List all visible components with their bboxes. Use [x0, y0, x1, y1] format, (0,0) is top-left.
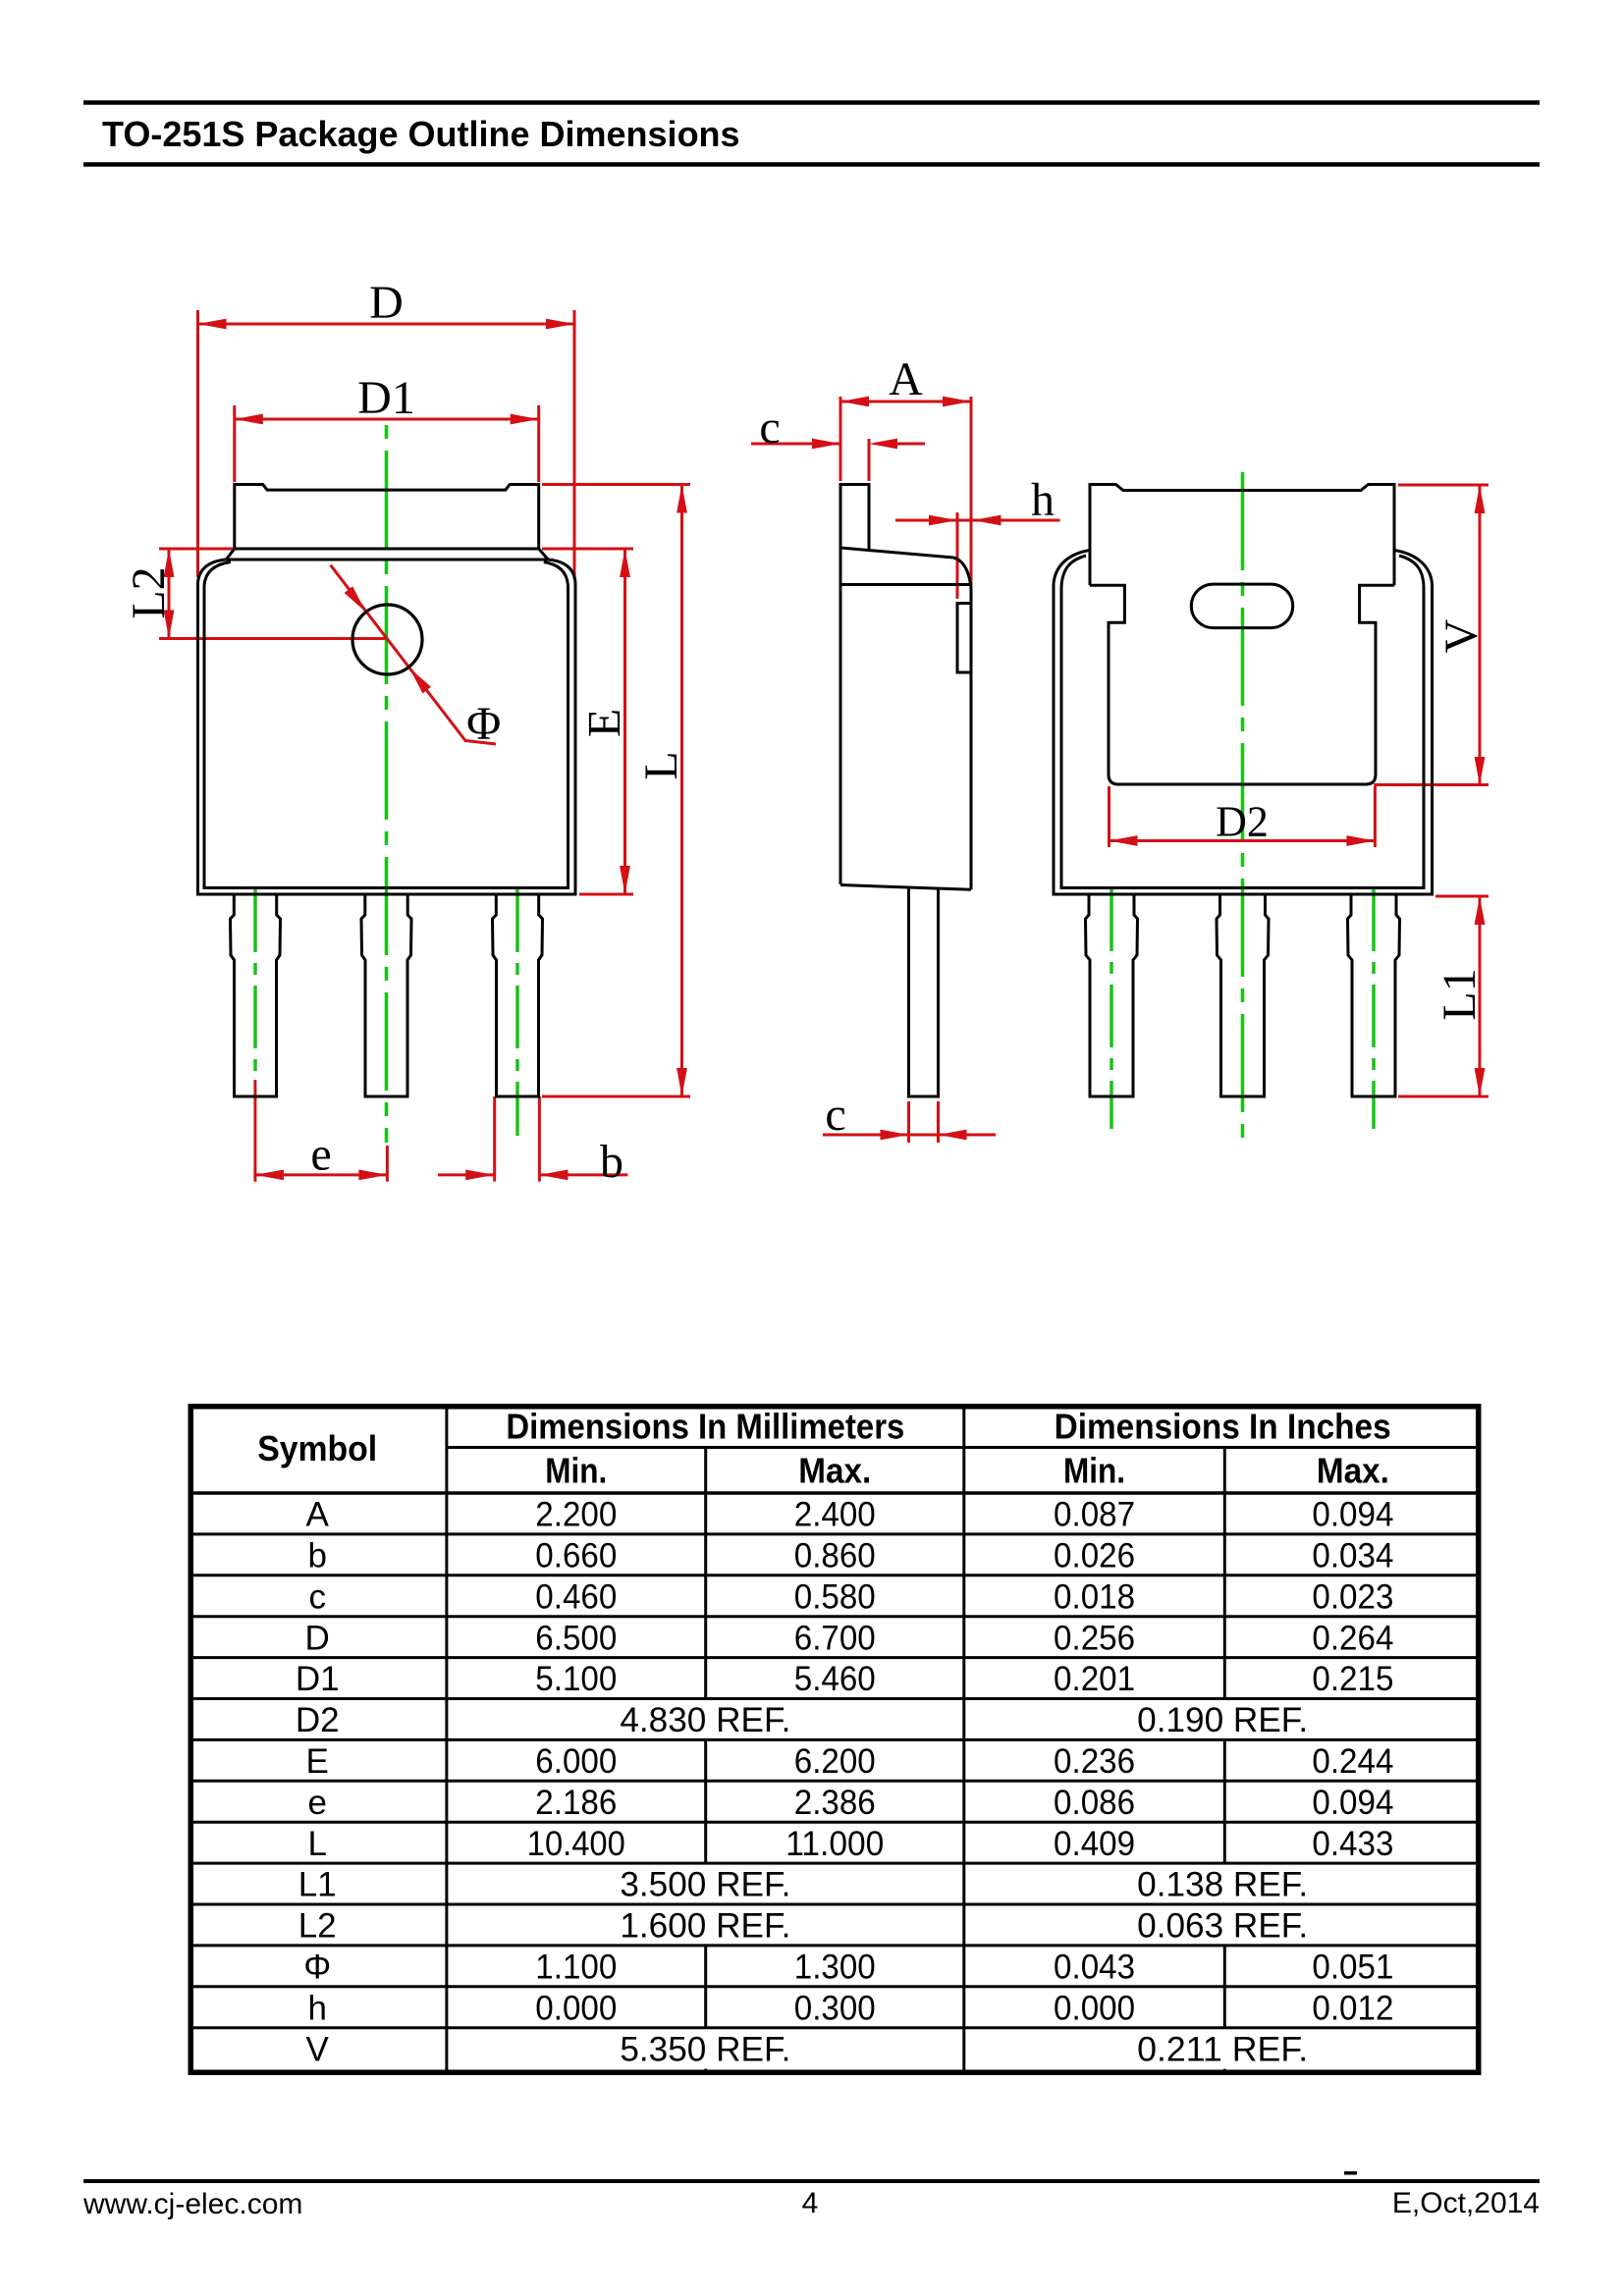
svg-text:V: V — [306, 2030, 330, 2068]
svg-text:L2: L2 — [298, 1907, 337, 1946]
svg-text:0.236: 0.236 — [1054, 1742, 1135, 1781]
svg-text:h: h — [307, 1989, 326, 2027]
svg-text:0.000: 0.000 — [535, 1989, 617, 2027]
svg-text:5.100: 5.100 — [535, 1660, 617, 1698]
svg-text:3.500 REF.: 3.500 REF. — [620, 1866, 790, 1904]
svg-text:4: 4 — [802, 2187, 819, 2219]
svg-text:b: b — [307, 1536, 326, 1575]
svg-text:0.264: 0.264 — [1312, 1619, 1393, 1657]
svg-text:Dimensions In Millimeters: Dimensions In Millimeters — [506, 1406, 904, 1446]
svg-text:0.034: 0.034 — [1312, 1536, 1393, 1575]
svg-text:2.386: 2.386 — [794, 1784, 876, 1822]
svg-text:E,Oct,2014: E,Oct,2014 — [1392, 2187, 1540, 2219]
svg-text:0.063 REF.: 0.063 REF. — [1137, 1907, 1308, 1946]
svg-text:4.830 REF.: 4.830 REF. — [620, 1701, 790, 1739]
svg-text:2.400: 2.400 — [794, 1496, 876, 1534]
svg-text:c: c — [825, 1089, 845, 1141]
svg-text:L: L — [635, 751, 687, 779]
svg-text:L1: L1 — [1434, 968, 1486, 1020]
svg-text:0.043: 0.043 — [1054, 1948, 1135, 1986]
svg-text:D: D — [305, 1619, 330, 1657]
svg-text:V: V — [1435, 618, 1488, 653]
svg-text:D1: D1 — [296, 1660, 340, 1698]
svg-text:D1: D1 — [357, 372, 415, 424]
svg-text:0.018: 0.018 — [1054, 1577, 1135, 1616]
svg-text:0.012: 0.012 — [1312, 1989, 1393, 2027]
svg-text:0.201: 0.201 — [1054, 1660, 1135, 1698]
svg-text:1.300: 1.300 — [794, 1948, 876, 1986]
svg-text:0.580: 0.580 — [794, 1577, 876, 1616]
svg-text:0.433: 0.433 — [1312, 1825, 1393, 1863]
svg-text:0.660: 0.660 — [535, 1536, 617, 1575]
svg-text:0.409: 0.409 — [1054, 1825, 1135, 1863]
svg-text:Max.: Max. — [798, 1450, 871, 1490]
svg-text:0.086: 0.086 — [1054, 1784, 1135, 1822]
svg-text:0.051: 0.051 — [1312, 1948, 1393, 1986]
svg-text:0.460: 0.460 — [535, 1577, 617, 1616]
svg-text:E: E — [306, 1742, 329, 1781]
svg-text:0.211 REF.: 0.211 REF. — [1137, 2030, 1308, 2068]
svg-text:0.094: 0.094 — [1312, 1784, 1393, 1822]
svg-text:0.023: 0.023 — [1312, 1577, 1393, 1616]
svg-text:E: E — [579, 709, 631, 737]
svg-text:0.138 REF.: 0.138 REF. — [1137, 1866, 1308, 1904]
svg-text:e: e — [310, 1129, 331, 1181]
svg-text:0.300: 0.300 — [794, 1989, 876, 2027]
svg-text:c: c — [308, 1577, 326, 1616]
svg-text:6.700: 6.700 — [794, 1619, 876, 1657]
svg-text:2.186: 2.186 — [535, 1784, 617, 1822]
svg-text:0.256: 0.256 — [1054, 1619, 1135, 1657]
svg-text:L2: L2 — [123, 566, 175, 618]
svg-text:A: A — [889, 353, 923, 405]
svg-text:D2: D2 — [296, 1701, 340, 1739]
svg-text:0.215: 0.215 — [1312, 1660, 1393, 1698]
svg-text:Dimensions In Inches: Dimensions In Inches — [1055, 1406, 1391, 1446]
svg-text:6.200: 6.200 — [794, 1742, 876, 1781]
svg-text:e: e — [307, 1784, 326, 1822]
svg-text:0.087: 0.087 — [1054, 1496, 1135, 1534]
svg-text:6.500: 6.500 — [535, 1619, 617, 1657]
svg-text:5.350 REF.: 5.350 REF. — [620, 2030, 790, 2068]
svg-text:5.460: 5.460 — [794, 1660, 876, 1698]
svg-text:2.200: 2.200 — [535, 1496, 617, 1534]
svg-text:A: A — [306, 1496, 330, 1534]
svg-text:0.026: 0.026 — [1054, 1536, 1135, 1575]
svg-text:0.000: 0.000 — [1054, 1989, 1135, 2027]
svg-text:D: D — [369, 277, 404, 329]
svg-text:D2: D2 — [1216, 798, 1269, 846]
svg-text:1.100: 1.100 — [535, 1948, 617, 1986]
svg-text:TO-251S Package Outline Dimens: TO-251S Package Outline Dimensions — [102, 114, 740, 154]
svg-text:0.190 REF.: 0.190 REF. — [1137, 1701, 1308, 1739]
svg-text:Min.: Min. — [545, 1450, 607, 1490]
svg-text:Φ: Φ — [466, 698, 501, 750]
svg-text:0.860: 0.860 — [794, 1536, 876, 1575]
svg-text:Φ: Φ — [303, 1948, 331, 1986]
svg-text:11.000: 11.000 — [785, 1825, 884, 1863]
svg-text:0.094: 0.094 — [1312, 1496, 1393, 1534]
svg-text:10.400: 10.400 — [527, 1825, 625, 1863]
svg-text:1.600 REF.: 1.600 REF. — [620, 1907, 790, 1946]
svg-text:Max.: Max. — [1317, 1450, 1389, 1490]
svg-text:c: c — [759, 401, 780, 454]
svg-text:b: b — [600, 1136, 623, 1188]
svg-text:6.000: 6.000 — [535, 1742, 617, 1781]
svg-text:h: h — [1031, 474, 1055, 526]
svg-text:0.244: 0.244 — [1312, 1742, 1393, 1781]
svg-text:L1: L1 — [298, 1866, 337, 1904]
svg-text:www.cj-elec.com: www.cj-elec.com — [82, 2188, 302, 2220]
svg-text:Symbol: Symbol — [257, 1428, 377, 1468]
svg-text:Min.: Min. — [1063, 1450, 1125, 1490]
svg-text:L: L — [307, 1825, 326, 1863]
